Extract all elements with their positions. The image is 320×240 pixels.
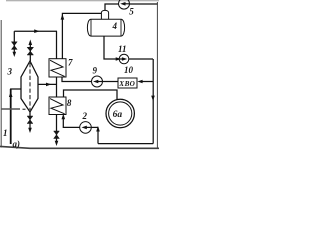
fermenter 6a outer circle [106,99,134,127]
column 3 (hexagonal vessel) [21,61,38,112]
arrow left into XBO box [137,80,142,84]
drum 4 [87,19,124,36]
exchanger 8 zigzag coil [50,99,65,114]
pipe: exchanger 7 bottom right stub to pump 9 line [62,77,91,82]
svg-text:5: 5 [129,7,134,17]
svg-text:10: 10 [124,65,134,75]
pipe: pump 5 discharge to right edge [130,3,158,5]
pipe: pump 11 discharge to right vertical [129,58,153,60]
flow arrow down on right vertical [151,96,155,101]
pipe: exchanger 7 top left stub up to loop [56,31,58,59]
heat exchanger 8 [49,97,66,115]
pump 5 arrow [120,2,125,6]
pump 2 [80,122,92,134]
arrow down at exchanger 8 drain [55,141,59,146]
pipe: column 3 bottom outlet [29,112,31,129]
pipe: pump 9 to XBO box [103,81,119,83]
flow arrow right before pump 11 [116,57,121,61]
svg-text:2: 2 [82,111,88,121]
pipe: bottom return line [98,143,153,145]
arrow up on riser [96,126,100,132]
pipe: exchanger 7 top right stub up to drum line [62,13,101,58]
svg-text:ХВО: ХВО [118,80,135,88]
fermenter 6a inner circle [109,102,132,125]
pipe: feed line 1 (thick vertical) [10,89,12,144]
flow arrow right on top-left loop [34,29,39,33]
pump 11 [119,54,129,64]
pipe: exchanger 8 top right stub to fermenter [64,90,118,100]
pipe: right vertical return line [152,59,154,144]
pipe: from right vertical into XBO box [141,81,153,83]
valve V1 [11,42,17,50]
svg-text:7: 7 [68,58,73,68]
valve V3 below column 3 [27,116,33,124]
exchanger 7 zigzag coil [50,60,65,76]
boundary hatch mark on line 1 [1,108,20,110]
valve V2 above column 3 [27,47,33,55]
pipe: column 3 top vent [29,44,31,62]
svg-text:а): а) [13,139,21,149]
drum 4 top nozzle [101,10,108,19]
scan border right [156,2,158,148]
pipe: exchanger 7 to exchanger 8 vertical [56,77,58,97]
svg-text:6а: 6а [113,110,123,120]
pump 5 [119,0,130,9]
pipe: nozzle top to pump 5 [105,4,119,10]
pump 11 arrow (points right) [122,57,127,60]
pipe: top-left loop vertical down [13,31,15,52]
svg-text:11: 11 [118,44,127,54]
pipe: exchanger 8 bottom right stub to pump 2 [63,118,79,128]
flow arrow right on column outlet [46,83,51,87]
arrow down at column 3 drain [28,128,32,133]
pump 9 arrow [93,80,98,84]
scan border left [0,20,2,148]
arrow down at V1 drain [13,52,17,57]
XBO box 10 [118,78,137,88]
drum 4 left cap line [90,19,92,36]
svg-text:3: 3 [7,67,13,77]
svg-text:8: 8 [67,98,72,108]
pump 9 [92,76,103,87]
arrow up into exchanger 8 bottom [62,114,66,120]
svg-text:4: 4 [112,21,118,31]
svg-text:9: 9 [93,65,98,75]
arrow up on column vent [29,40,33,46]
column 3 dashed centerline [29,63,31,110]
pump 2 arrow [82,126,87,130]
heat exchanger 7 [49,59,66,77]
scan border top [6,0,159,2]
pipe: drum 4 bottom outlet to pump 11 [104,36,119,59]
pipe: pump 2 suction from bottom loop [91,126,98,128]
pipe: feed into column 3 left side [11,88,21,91]
valve V4 below exchanger 8 [54,131,60,139]
pipe: exchanger 8 bottom drain with valve [56,115,58,142]
pipe: top-left loop horizontal [14,30,57,32]
pipe: column 3 right outlet to exchangers [38,83,57,85]
pipe: riser from bottom line to pump 2 line [97,127,99,143]
flow arrow up near top of riser [61,14,65,20]
svg-text:1: 1 [3,128,8,138]
flow arrow up on feed line 1 [9,92,13,98]
drum 4 right cap line [120,19,122,36]
scan border bottom [0,146,159,148]
